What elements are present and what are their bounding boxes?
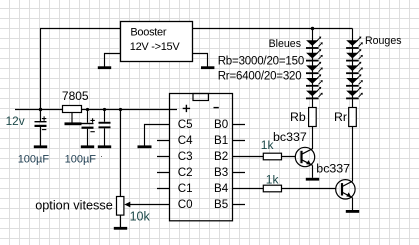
svg-text:B1: B1 [214,134,228,147]
svg-text:C4: C4 [178,134,193,147]
svg-text:Rr: Rr [334,110,347,124]
svg-text:bc337: bc337 [273,130,307,144]
svg-text:option vitesse: option vitesse [35,199,113,213]
svg-text:1k: 1k [266,172,280,186]
svg-text:·: · [100,151,103,161]
svg-text:B4: B4 [214,182,229,195]
svg-text:7805: 7805 [62,89,89,103]
svg-text:10k: 10k [130,209,151,223]
svg-text:C3: C3 [178,150,193,163]
svg-text:Rr=6400/20=320: Rr=6400/20=320 [218,70,302,82]
svg-text:C2: C2 [178,166,193,179]
svg-text:100µF: 100µF [65,154,97,166]
svg-text:B0: B0 [214,118,228,131]
svg-text:Rouges: Rouges [365,35,402,47]
svg-text:B5: B5 [214,198,228,211]
svg-text:bc337: bc337 [316,161,350,175]
svg-text:C0: C0 [178,198,193,211]
svg-text:12V ->15V: 12V ->15V [130,41,181,53]
svg-text:B3: B3 [214,166,228,179]
svg-text:100µF: 100µF [18,154,50,166]
svg-text:12v: 12v [6,114,25,128]
svg-text:Bleues: Bleues [269,38,301,50]
svg-text:Rb=3000/20=150: Rb=3000/20=150 [218,56,304,68]
svg-text:C1: C1 [178,182,193,195]
svg-text:Booster: Booster [130,27,166,39]
svg-text:B2: B2 [214,150,228,163]
svg-text:C5: C5 [178,118,193,131]
svg-text:1k: 1k [261,138,275,152]
svg-text:Rb: Rb [290,110,306,124]
